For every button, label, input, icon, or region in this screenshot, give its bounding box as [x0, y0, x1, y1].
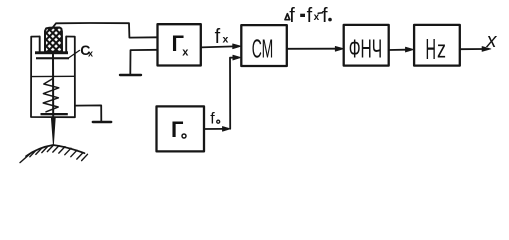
wire sensor top to Гх — [52, 23, 158, 38]
sensor internal shelf — [31, 75, 75, 77]
low-pass filter block ФНЧ — [344, 25, 389, 66]
svg-text:f: f — [215, 26, 221, 48]
sensor housing — [31, 37, 75, 118]
svg-text:f: f — [210, 111, 215, 128]
spring — [43, 79, 59, 112]
svg-text:СМ: СМ — [252, 34, 274, 64]
probe needle — [51, 118, 55, 146]
mixer block СМ — [241, 25, 286, 66]
stem — [52, 55, 54, 117]
svg-text:х: х — [223, 34, 229, 46]
svg-text:х: х — [88, 49, 93, 59]
svg-text:H: H — [426, 34, 437, 66]
earth hatching — [20, 145, 88, 163]
label Δf=fx-fo — [285, 14, 290, 20]
reference oscillator block Го — [157, 106, 205, 151]
wire output x — [460, 48, 484, 50]
svg-text:z: z — [437, 37, 446, 64]
wire ФНЧ to Hz — [389, 49, 407, 51]
frequency meter block Hz — [414, 25, 460, 66]
capacitor Cx plate 1 — [35, 51, 68, 54]
electrode cup — [40, 37, 66, 52]
earth surface — [26, 145, 85, 156]
svg-text:f: f — [322, 5, 328, 27]
electrode (crosshatched) — [45, 28, 62, 52]
wire fo — [204, 128, 224, 130]
svg-text:х: х — [182, 46, 189, 58]
svg-text:f: f — [307, 5, 313, 27]
leader line Cx — [69, 50, 80, 57]
wire СМ to ФНЧ — [287, 48, 336, 50]
wire fx — [201, 46, 234, 47]
ground (sensor body) — [75, 105, 101, 121]
ground (Гх input) — [130, 50, 157, 75]
bottom plate — [41, 113, 68, 115]
svg-text:x: x — [486, 30, 498, 52]
capacitor Cx plate 2 — [36, 57, 69, 59]
oscillator block Гх — [158, 24, 201, 65]
svg-text:ФНЧ: ФНЧ — [349, 34, 383, 64]
svg-text:Г: Г — [171, 117, 184, 142]
svg-text:f: f — [289, 5, 295, 27]
